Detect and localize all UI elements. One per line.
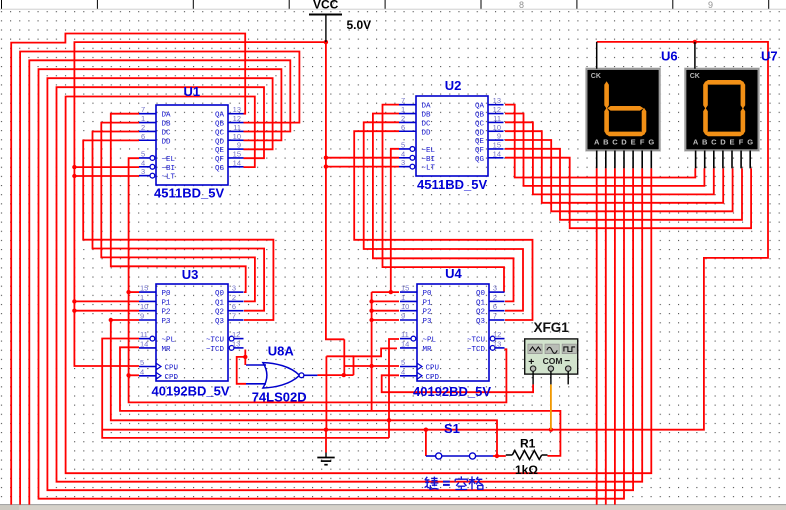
wire net U1.QA to U6.A (loop left/bottom)	[11, 34, 597, 505]
svg-text:P3: P3	[423, 318, 433, 326]
svg-text:CPU: CPU	[426, 365, 440, 373]
svg-text:14: 14	[493, 149, 501, 158]
wire U6.CK black	[596, 42, 598, 69]
svg-text:2: 2	[401, 114, 405, 123]
svg-text:~PL: ~PL	[423, 337, 437, 345]
svg-text:5: 5	[401, 140, 405, 149]
svg-text:Q3: Q3	[215, 318, 225, 326]
wire net U1.QD to U6.D	[39, 69, 625, 499]
svg-text:1: 1	[141, 114, 145, 123]
svg-text:DD: DD	[422, 129, 432, 137]
svg-text:9: 9	[497, 132, 501, 141]
svg-text:9: 9	[708, 0, 713, 10]
svg-text:3: 3	[141, 167, 145, 176]
svg-text:~TCD: ~TCD	[467, 346, 486, 354]
svg-text:5: 5	[401, 358, 405, 367]
svg-text:7: 7	[141, 105, 145, 114]
svg-text:QD: QD	[215, 138, 225, 146]
svg-text:−: −	[564, 356, 570, 367]
svg-text:~EL: ~EL	[422, 147, 436, 155]
svg-text:10: 10	[401, 302, 409, 311]
svg-text:12: 12	[493, 105, 501, 114]
wire U7.CK black	[694, 42, 696, 69]
svg-text:1: 1	[401, 105, 405, 114]
svg-text:13: 13	[233, 105, 241, 114]
svg-text:C: C	[711, 138, 717, 147]
svg-text:U7: U7	[761, 49, 778, 64]
svg-text:P1: P1	[423, 299, 433, 307]
op-amp U8A 74LS02D NOR gate	[252, 344, 318, 405]
svg-text:74LS02D: 74LS02D	[252, 390, 307, 405]
svg-text:13: 13	[493, 96, 501, 105]
svg-text:40192BD_5V: 40192BD_5V	[413, 384, 491, 399]
svg-text:U8A: U8A	[268, 344, 295, 359]
svg-text:~PL: ~PL	[162, 337, 176, 345]
window bottom scrollbar strip	[0, 505, 786, 510]
wire net U2.QE to U7.E	[505, 140, 733, 211]
svg-text:QC: QC	[215, 129, 225, 137]
wire net U8A.out to U4.MR and S1 line	[317, 348, 397, 429]
svg-text:4511BD_5V: 4511BD_5V	[417, 177, 487, 192]
svg-text:2: 2	[493, 293, 497, 302]
svg-text:CPD: CPD	[165, 374, 179, 382]
wire net U1.QF to U6.F	[57, 87, 643, 482]
svg-text:3: 3	[232, 284, 236, 293]
wire net U2.QB to U7.B	[505, 114, 704, 186]
svg-text:2: 2	[141, 123, 145, 132]
svg-text:6: 6	[493, 302, 497, 311]
svg-text:DD: DD	[162, 138, 172, 146]
svg-text:CPD: CPD	[426, 374, 440, 382]
svg-text:QD: QD	[475, 129, 485, 137]
svg-text:QF: QF	[215, 156, 224, 164]
svg-text:11: 11	[140, 330, 148, 339]
ground	[317, 430, 334, 465]
svg-text:QB: QB	[215, 121, 225, 129]
svg-text:Q1: Q1	[215, 299, 225, 307]
wire net U3.Q3 to U1.DD	[83, 140, 273, 320]
svg-text:Q0: Q0	[215, 290, 225, 298]
svg-text:F: F	[640, 138, 645, 147]
svg-text:C: C	[612, 138, 618, 147]
svg-text:1kΩ: 1kΩ	[515, 463, 538, 477]
svg-text:CPU: CPU	[165, 365, 179, 373]
svg-text:6: 6	[401, 123, 405, 132]
svg-text:7: 7	[493, 312, 497, 321]
svg-text:10: 10	[233, 132, 241, 141]
svg-text:3: 3	[493, 284, 497, 293]
svg-text:E: E	[631, 138, 636, 147]
svg-text:DC: DC	[422, 120, 432, 128]
svg-text:5.0V: 5.0V	[347, 18, 372, 32]
svg-text:U2: U2	[445, 78, 462, 93]
IC U3 40192BD_5V	[139, 267, 244, 399]
svg-text:R1: R1	[520, 437, 536, 451]
svg-text:D: D	[720, 138, 726, 147]
svg-text:14: 14	[233, 158, 241, 167]
svg-text:10: 10	[140, 302, 148, 311]
wire net U2.QA to U7.A	[505, 105, 695, 178]
svg-text:~BI: ~BI	[162, 165, 176, 173]
svg-text:4: 4	[401, 149, 405, 158]
display U7 seven-segment showing 0	[685, 49, 777, 169]
svg-text:CK: CK	[690, 73, 700, 80]
wire net VCC rail (left branch, to U1 BI/LT and U3 P1/P2 and U3.CPU)	[72, 42, 326, 366]
IC U2 4511BD_5V	[399, 78, 504, 192]
svg-text:6: 6	[141, 132, 145, 141]
wire XFG1.COM orange to CK net	[550, 385, 552, 430]
svg-text:QE: QE	[215, 147, 225, 155]
svg-text:4: 4	[401, 367, 405, 376]
svg-text:10: 10	[493, 123, 501, 132]
sheet top ruler	[0, 0, 786, 10]
wire net U1.EL U3.P0 U3.CPD U4.TCD carry	[126, 158, 506, 402]
svg-text:QA: QA	[475, 103, 485, 111]
svg-text:MR: MR	[423, 346, 433, 354]
IC U1 4511BD_5V	[139, 84, 244, 201]
wire net U3.MR to R1	[120, 347, 560, 456]
svg-text:B: B	[702, 138, 708, 147]
svg-text:12: 12	[233, 114, 241, 123]
svg-text:U1: U1	[184, 84, 201, 99]
svg-text:QE: QE	[475, 138, 485, 146]
wire net U3.P3 U2.EL U4 presets S1.right	[109, 149, 497, 456]
svg-text:1: 1	[401, 293, 405, 302]
wire net U1.QG to U6.G	[66, 97, 652, 474]
wire net U2.QG to U7.G	[505, 158, 751, 229]
svg-text:Q1: Q1	[476, 299, 486, 307]
svg-text:40192BD_5V: 40192BD_5V	[152, 384, 230, 399]
svg-text:9: 9	[401, 312, 405, 321]
svg-text:COM: COM	[543, 356, 563, 366]
wire net U4.Q2 to U2.DC	[364, 122, 523, 310]
svg-text:9: 9	[237, 141, 241, 150]
svg-text:S1: S1	[444, 421, 460, 436]
svg-text:Q2: Q2	[476, 309, 485, 317]
function generator XFG1	[525, 320, 578, 385]
svg-text:15: 15	[401, 284, 409, 293]
wire net CK rail (U6.CK U7.CK S1.left GND XFG1.COM)	[102, 40, 768, 456]
svg-text:DB: DB	[422, 112, 432, 120]
svg-text:9: 9	[140, 312, 144, 321]
wire net U2.QF to U7.F	[505, 149, 742, 220]
svg-text:4: 4	[140, 367, 144, 376]
svg-text:~EL: ~EL	[162, 156, 176, 164]
svg-text:MR: MR	[162, 346, 172, 354]
svg-text:U3: U3	[182, 267, 199, 282]
wire net U4.Q1 to U2.DB	[373, 114, 514, 302]
svg-text:11: 11	[233, 123, 241, 132]
svg-text:P1: P1	[162, 299, 172, 307]
pin U8A input leads	[246, 365, 266, 384]
svg-text:~TCU: ~TCU	[206, 337, 224, 345]
svg-text:A: A	[693, 138, 699, 147]
IC U4 40192BD_5V	[400, 266, 505, 399]
svg-text:~LT: ~LT	[162, 174, 176, 182]
svg-text:XFG1: XFG1	[534, 320, 570, 335]
svg-text:E: E	[729, 138, 734, 147]
resistor R1 1kOhm	[506, 437, 548, 478]
svg-text:Q2: Q2	[215, 309, 224, 317]
svg-text:P2: P2	[162, 309, 171, 317]
svg-text:5: 5	[140, 358, 144, 367]
svg-text:15: 15	[233, 149, 241, 158]
wire U8A output to U4.CPD	[343, 339, 345, 375]
svg-text:6: 6	[232, 302, 236, 311]
svg-text:D: D	[621, 138, 627, 147]
wire net U4.Q3 to U2.DD	[354, 131, 532, 320]
svg-text:QC: QC	[475, 120, 485, 128]
wire net U3.Q0 to U1.DA	[111, 114, 246, 292]
display U6 seven-segment showing b	[586, 49, 677, 169]
svg-text:4: 4	[141, 158, 145, 167]
svg-text:CK: CK	[591, 73, 601, 80]
svg-text:QA: QA	[215, 112, 225, 120]
svg-text:12: 12	[493, 330, 501, 339]
svg-text:G: G	[648, 138, 654, 147]
svg-text:~TCD: ~TCD	[206, 346, 225, 354]
svg-text:DC: DC	[162, 129, 172, 137]
svg-text:11: 11	[493, 114, 501, 123]
wire net VCC stem branch (to U2 BI/LT then jog to U4.CPU)	[324, 40, 399, 366]
wire net U1.QE to U6.E	[47, 78, 633, 490]
svg-text:Q0: Q0	[476, 290, 486, 298]
wire U3.TCD to both U8A inputs	[237, 350, 248, 384]
wire net U3.Q2 to U1.DC	[93, 132, 265, 311]
svg-text:4511BD_5V: 4511BD_5V	[154, 186, 224, 201]
svg-text:3: 3	[401, 158, 405, 167]
svg-text:P3: P3	[162, 318, 172, 326]
svg-text:U4: U4	[445, 266, 462, 281]
wire U3.PL to U4.PL load net	[102, 339, 389, 438]
svg-text:8: 8	[519, 0, 524, 10]
svg-text:13: 13	[493, 339, 501, 348]
wire net U3.Q1 to U1.DB	[101, 123, 255, 302]
svg-text:~BI: ~BI	[422, 156, 436, 164]
svg-text:U6: U6	[661, 49, 678, 64]
svg-text:5: 5	[141, 149, 145, 158]
svg-text:QF: QF	[475, 147, 484, 155]
svg-text:7: 7	[232, 312, 236, 321]
svg-text:DA: DA	[162, 112, 172, 120]
svg-text:QG: QG	[215, 165, 225, 173]
svg-text:15: 15	[493, 140, 501, 149]
svg-text:2: 2	[232, 293, 236, 302]
wire net U2.QC to U7.C	[505, 122, 714, 194]
power VCC 5.0V	[309, 0, 371, 42]
svg-text:~LT: ~LT	[422, 165, 436, 173]
wire net U1.QB to U6.B	[20, 52, 606, 505]
svg-text:14: 14	[401, 339, 409, 348]
wire net XFG1.plus to U4.CPD	[382, 375, 533, 392]
svg-text:G: G	[747, 138, 753, 147]
wire net U2.QD to U7.D	[505, 131, 723, 203]
svg-text:P0: P0	[162, 290, 172, 298]
svg-text:12: 12	[232, 330, 240, 339]
svg-text:QG: QG	[475, 156, 485, 164]
svg-text:11: 11	[401, 330, 409, 339]
svg-text:F: F	[739, 138, 744, 147]
svg-text:B: B	[603, 138, 609, 147]
svg-text:DB: DB	[162, 121, 172, 129]
svg-text:A: A	[594, 138, 600, 147]
svg-text:1: 1	[140, 293, 144, 302]
svg-text:13: 13	[232, 339, 240, 348]
svg-text:P2: P2	[423, 309, 432, 317]
svg-text:Q3: Q3	[476, 318, 486, 326]
svg-text:15: 15	[140, 284, 148, 293]
svg-text:7: 7	[401, 96, 405, 105]
wire net U4.Q0 to U2.DA	[383, 105, 505, 293]
svg-text:VCC: VCC	[313, 0, 339, 12]
caption key = space (Chinese)	[425, 476, 483, 489]
switch S1	[426, 421, 506, 459]
wire net U1.QC to U6.C	[29, 60, 615, 504]
svg-text:QB: QB	[475, 112, 485, 120]
svg-text:14: 14	[140, 339, 148, 348]
svg-text:DA: DA	[422, 103, 432, 111]
svg-text:~TCU: ~TCU	[467, 337, 485, 345]
svg-text:P0: P0	[423, 290, 433, 298]
